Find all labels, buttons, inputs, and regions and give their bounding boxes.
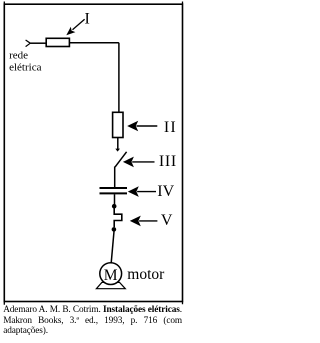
svg-text:II: II	[164, 119, 177, 136]
svg-text:IV: IV	[157, 183, 174, 200]
svg-text:III: III	[159, 153, 177, 170]
svg-text:V: V	[161, 212, 173, 229]
svg-text:motor: motor	[127, 266, 165, 283]
svg-text:I: I	[85, 10, 90, 27]
svg-text:rede: rede	[9, 49, 28, 61]
svg-text:elétrica: elétrica	[9, 61, 41, 73]
svg-text:M: M	[104, 267, 118, 284]
